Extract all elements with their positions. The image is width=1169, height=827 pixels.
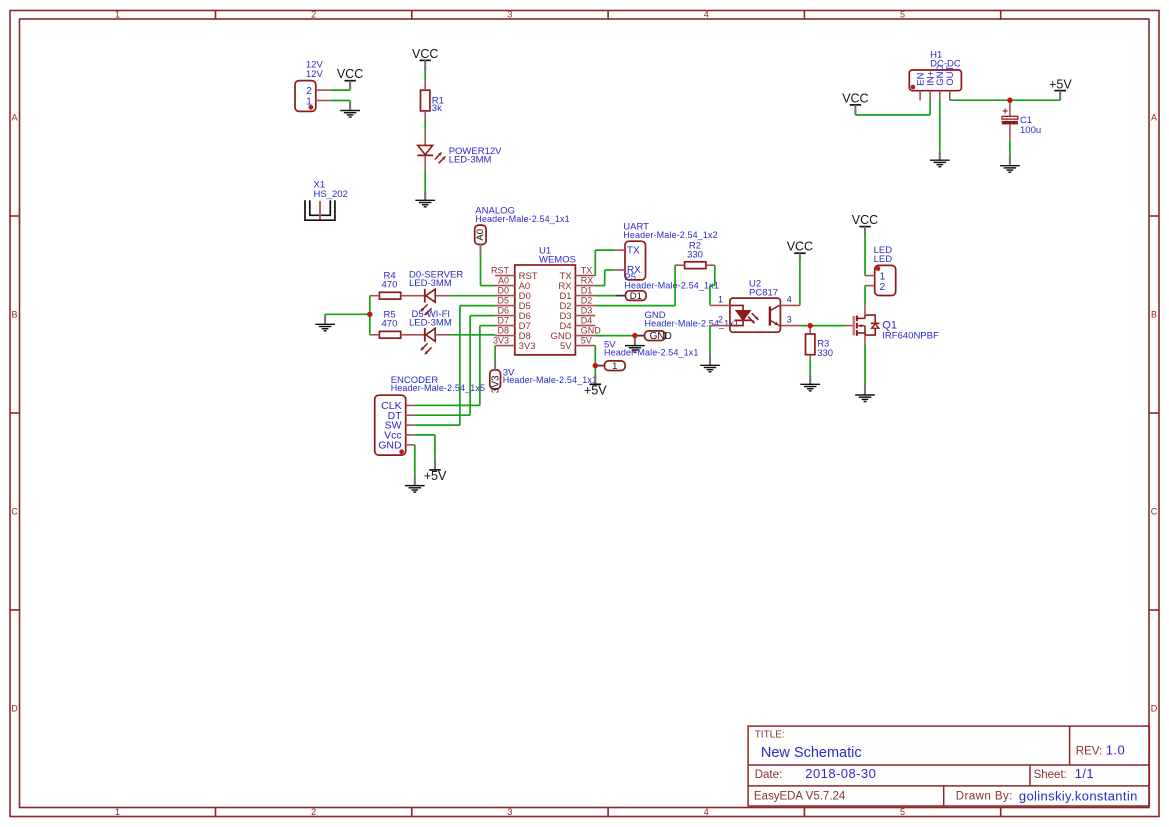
svg-text:D7: D7 [497,315,509,325]
LED D5-WI-FI LED-3MM [424,328,426,342]
pin R1 top [424,81,426,90]
wire R4-R5 common [369,296,371,335]
U1 pin 3V3 (left) [495,345,515,347]
svg-text:330: 330 [687,249,703,260]
svg-text:D8: D8 [497,325,509,335]
H1 pin GND [939,91,941,101]
wire VCC to H1 IN+ [854,114,856,116]
svg-text:GND: GND [378,439,402,451]
svg-text:2: 2 [718,315,723,325]
wire R1 to LED POWER12V [424,120,426,130]
svg-text:C: C [11,507,18,517]
wire CLK to D7 [415,404,480,406]
svg-text:Q1: Q1 [882,319,897,331]
svg-text:D1: D1 [630,291,642,302]
svg-text:4: 4 [704,807,709,817]
svg-text:TITLE:: TITLE: [755,730,785,741]
pin R2 right [706,264,715,266]
U1 pin A0 (left) [495,285,515,287]
wire LED pin2 to Q1 drain [864,286,866,306]
U2 pin 4 [780,304,800,306]
wire U1 D2 to R2 [595,305,675,307]
U1 pin D1 (right) [575,295,595,297]
pin D1 header [616,295,626,297]
resistor R3 330 [806,334,815,355]
svg-text:1: 1 [115,807,120,817]
svg-text:Header-Male-2.54_1x1: Header-Male-2.54_1x1 [503,375,597,385]
svg-text:Drawn By:: Drawn By: [956,790,1013,802]
pin R1 bottom [424,111,426,120]
U1 pin RX (right) [575,285,595,287]
ground (12V connector) [349,101,351,111]
svg-text:LED-3MM: LED-3MM [409,278,452,289]
pin R4 right [401,295,425,297]
svg-text:3: 3 [507,807,512,817]
wire 5V to +5V flag [594,366,596,375]
svg-text:12V: 12V [306,69,324,80]
pin UART TX [615,249,625,251]
wire C1 to ground [1009,140,1011,156]
Q1 source pin [864,335,866,344]
svg-text:GND: GND [581,325,602,335]
svg-text:A0: A0 [475,229,486,241]
wire 12V pin2 to VCC [331,89,351,91]
svg-text:PC817: PC817 [749,287,778,298]
ground (left of R4/R5) [324,314,326,324]
svg-text:1: 1 [612,361,617,372]
svg-text:1/1: 1/1 [1075,766,1094,781]
wire UART RX to U1 [605,269,615,271]
svg-text:D3: D3 [581,305,593,315]
ENCODER pin GND [406,444,415,446]
pin R3 top [809,326,811,334]
svg-text:+5V: +5V [584,384,607,398]
svg-text:5V: 5V [560,341,572,352]
svg-text:HS_202: HS_202 [314,189,348,200]
wire 12V pin1 to ground [331,100,351,102]
svg-text:Date:: Date: [755,769,783,781]
svg-text:Header-Male-2.54_1x1: Header-Male-2.54_1x1 [624,281,718,291]
ground (encoder) [414,476,416,486]
wire GND encoder [414,445,416,476]
svg-text:5: 5 [900,807,905,817]
svg-text:1: 1 [115,10,120,20]
U1 pin 5V (right) [575,345,595,347]
svg-text:LED-3MM: LED-3MM [409,318,452,329]
svg-text:VCC: VCC [842,91,868,105]
LED D0-SERVER LED-3MM [424,289,426,303]
wire VCC to LED pin1 [864,235,866,276]
wire U2 pin2 to ground [709,326,711,356]
ground (H1) [939,150,941,160]
svg-text:3: 3 [507,10,512,20]
svg-text:LED: LED [874,254,893,265]
svg-text:WEMOS: WEMOS [539,255,576,266]
junction 5V header [593,363,598,368]
LED header pin 1 [865,275,875,277]
wire Q1 source to ground [864,344,866,385]
junction C1 top [1007,98,1012,103]
svg-text:4: 4 [704,10,709,20]
svg-text:D4: D4 [581,315,593,325]
pin1 dot ENCODER [399,449,404,454]
junction R4/R5 to ground [367,312,372,317]
pin 5V header [595,365,604,367]
svg-text:3V3: 3V3 [491,375,502,393]
wire A0 header to U1 [480,255,482,286]
transistor Q1 IRF640NPBF [845,325,854,327]
U1 pin TX (right) [575,275,595,277]
svg-text:470: 470 [382,280,398,291]
svg-text:VCC: VCC [852,213,878,227]
C1 bottom pin [1009,124,1011,139]
U1 pin D5 (left) [495,305,515,307]
wire H1 GND to ground [939,101,941,151]
U2 pin 3 [780,325,800,327]
pin R4 left [370,295,380,297]
ground (Q1 source) [864,385,866,395]
wire VCC to U2 pin4 [799,261,801,305]
ground (U2 pin2) [709,355,711,365]
wire LED to ground [424,170,426,191]
wire U2 pin3 to gate [800,325,845,327]
svg-text:2: 2 [880,281,886,293]
svg-text:4: 4 [787,294,792,304]
U1 pin D8 (left) [495,335,515,337]
wire R2 to U2 pin1 [714,265,716,285]
svg-text:D1: D1 [581,285,593,295]
pin 1 stub (12V) [316,100,331,102]
H1 pin IN+ [929,91,931,101]
svg-text:5: 5 [900,10,905,20]
pin R5 left [370,334,380,336]
H1 pin EN [919,91,921,101]
C1 top pin [1009,100,1011,116]
svg-text:VCC: VCC [337,67,363,81]
U1 pin D0 (left) [495,295,515,297]
ground (POWER12V) [424,190,426,200]
resistor R2 330 [685,262,706,269]
svg-text:D: D [1151,704,1158,714]
wire H1 OUT to +5V [950,99,1060,101]
wire UART TX to U1 [595,249,615,251]
svg-text:3V3: 3V3 [493,335,509,345]
pin A0 header [480,245,482,255]
svg-text:100u: 100u [1020,125,1041,136]
svg-text:D5: D5 [497,295,509,305]
svg-text:LED-3MM: LED-3MM [449,155,492,166]
svg-text:Header-Male-2.54_1x5: Header-Male-2.54_1x5 [391,383,485,393]
Q1 drain pin [864,306,866,315]
power flag +5V (encoder) [429,469,441,471]
svg-text:3: 3 [787,315,792,325]
svg-text:VCC: VCC [787,240,813,254]
H1 pin OUT [949,91,951,101]
wire U1 D1 to header [595,295,616,297]
pin R2 left [675,264,685,266]
ENCODER pin DT [406,414,415,416]
U1 pin D7 (left) [495,325,515,327]
resistor R4 470 [379,292,400,299]
pin R3 bottom [809,355,811,360]
ground (GND header) [634,336,636,346]
svg-text:TX: TX [627,246,640,257]
power flag +5V (5V header) [590,383,602,385]
U1 pin D2 (right) [575,305,595,307]
wire D5 LED to U1 D8 [450,334,496,336]
ENCODER pin SW [406,424,415,426]
pin GND header [635,335,645,337]
title block [748,726,1149,806]
pin UART RX [615,269,625,271]
svg-text:1: 1 [718,294,723,304]
svg-text:470: 470 [382,319,398,330]
svg-text:A: A [1151,113,1157,123]
svg-text:IRF640NPBF: IRF640NPBF [882,331,939,342]
svg-text:B: B [1151,310,1157,320]
svg-text:New Schematic: New Schematic [761,745,862,761]
resistor R5 470 [379,331,400,338]
wire U1 5V down [594,346,596,366]
junction U1 GND / GND header [632,333,637,338]
svg-text:2018-08-30: 2018-08-30 [805,766,876,781]
wire 3V3 to header [494,346,496,361]
pin 3V header [494,361,496,370]
svg-text:REV:: REV: [1076,745,1102,757]
svg-text:3k: 3k [432,103,442,114]
svg-text:Header-Male-2.54_1x1: Header-Male-2.54_1x1 [604,348,698,358]
svg-text:GND: GND [650,331,672,342]
svg-text:A0: A0 [498,275,509,285]
pin 2 stub (12V) [316,89,331,91]
svg-text:VCC: VCC [412,47,438,61]
svg-text:OUT: OUT [945,66,956,86]
svg-text:+5V: +5V [424,469,447,483]
U2 pin 1 [710,304,730,306]
svg-text:D0: D0 [497,285,509,295]
wire DT to D6 [415,414,471,416]
resistor R1 3k [421,90,430,111]
wire U1 GND to header [595,335,635,337]
U1 pin RST (left) [495,275,515,277]
junction R3 top [808,323,813,328]
svg-text:Header-Male-2.54_1x1: Header-Male-2.54_1x1 [475,214,569,224]
svg-text:Sheet:: Sheet: [1034,769,1067,781]
svg-text:A: A [11,113,17,123]
svg-text:5V: 5V [581,335,592,345]
svg-text:golinskiy.konstantin: golinskiy.konstantin [1019,788,1138,803]
U1 pin D4 (right) [575,325,595,327]
U1 pin D3 (right) [575,315,595,317]
svg-text:D: D [11,704,18,714]
wire SW to D5 [415,424,460,426]
ground (C1) [1009,156,1011,166]
LED POWER12V LED-3MM [424,130,426,145]
ENCODER pin CLK [406,404,415,406]
LED header pin 2 [865,285,875,287]
svg-text:D2: D2 [581,295,593,305]
pin R5 right [401,334,425,336]
wire D0 LED to U1 [450,295,496,297]
svg-text:TX: TX [581,265,593,275]
wire Vcc to +5V [415,434,435,436]
svg-text:Header-Male-2.54_1x1: Header-Male-2.54_1x1 [645,319,739,329]
svg-text:2: 2 [311,807,316,817]
svg-text:D6: D6 [497,305,509,315]
U1 pin D6 (left) [495,315,515,317]
U2 pin 2 [710,325,730,327]
svg-text:2: 2 [311,10,316,20]
U1 pin GND (right) [575,335,595,337]
wire to left ground [325,313,370,315]
svg-text:B: B [11,310,17,320]
svg-text:RST: RST [491,265,510,275]
svg-text:RX: RX [581,275,594,285]
svg-text:1.0: 1.0 [1106,743,1125,758]
ground (R3) [809,374,811,384]
svg-text:3V3: 3V3 [519,341,536,352]
svg-text:C: C [1151,507,1158,517]
wire R3 to ground [809,360,811,375]
svg-text:EasyEDA V5.7.24: EasyEDA V5.7.24 [754,790,846,802]
svg-text:+5V: +5V [1049,78,1072,92]
ENCODER pin Vcc [406,434,415,436]
svg-text:Header-Male-2.54_1x2: Header-Male-2.54_1x2 [623,230,717,240]
svg-text:330: 330 [817,348,833,359]
